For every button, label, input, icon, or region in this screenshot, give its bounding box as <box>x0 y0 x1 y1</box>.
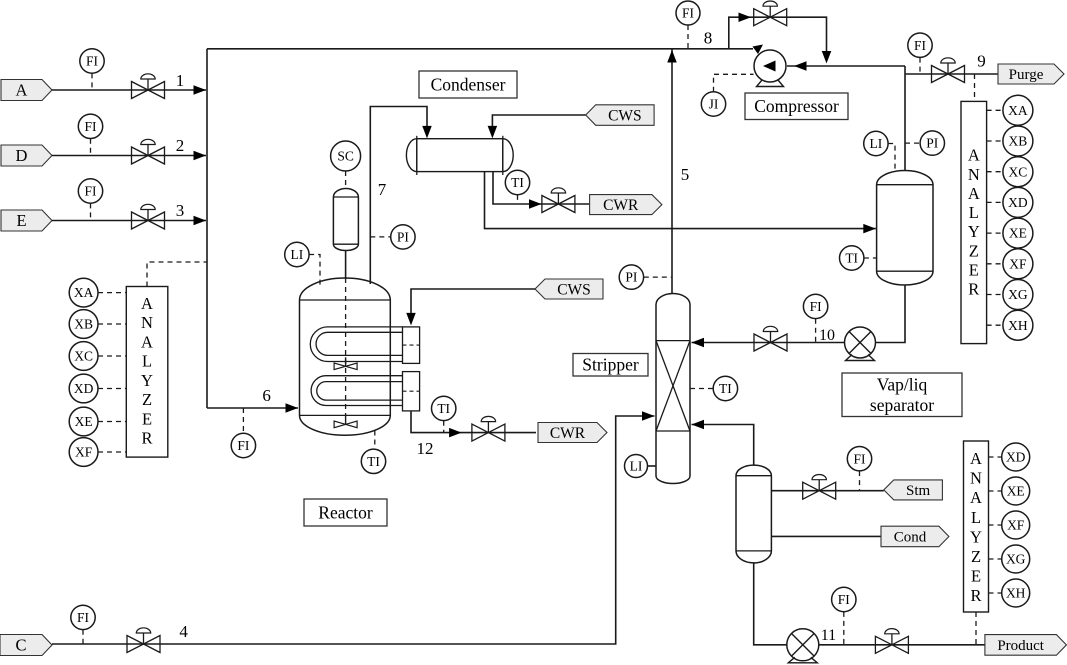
reactor vessel <box>300 278 391 435</box>
svg-text:Compressor: Compressor <box>754 96 839 116</box>
svg-text:Vap/liq: Vap/liq <box>877 374 928 394</box>
svg-text:TI: TI <box>511 175 524 190</box>
svg-text:A: A <box>968 184 980 203</box>
label stream number 12 <box>417 439 434 458</box>
svg-text:FI: FI <box>838 592 851 607</box>
arrow bypass right <box>739 12 752 22</box>
svg-text:A: A <box>968 146 980 165</box>
svg-text:PI: PI <box>926 136 939 151</box>
wire stream 8 recycle header <box>207 48 753 50</box>
svg-text:XE: XE <box>1009 226 1027 241</box>
svg-text:5: 5 <box>681 165 690 184</box>
instrument LI separator <box>864 131 888 155</box>
svg-text:CWR: CWR <box>603 197 639 214</box>
reactor stand pipe <box>345 251 347 280</box>
analyzer bottom box <box>964 441 989 612</box>
svg-text:FI: FI <box>84 119 97 134</box>
arrow stream 5 up <box>667 50 677 63</box>
wire XD dashed link right <box>987 201 1003 203</box>
svg-text:XE: XE <box>1007 484 1025 499</box>
instrument XG bottom analyzer <box>1002 545 1030 573</box>
valve stream 1 <box>132 74 165 99</box>
svg-text:separator: separator <box>870 395 934 415</box>
wire PI reactor dashed <box>370 236 390 238</box>
svg-text:XF: XF <box>75 445 93 460</box>
svg-text:E: E <box>142 409 152 428</box>
arrow bypass down <box>822 51 832 64</box>
wire FI-6 dashed lead <box>242 408 244 433</box>
instrument XF bottom analyzer <box>1002 511 1030 539</box>
wire TI stripper dashed <box>690 388 713 390</box>
wire XD dashed link <box>98 388 126 390</box>
reactor coil lower <box>311 376 402 406</box>
arrow condenser CWR <box>529 199 542 209</box>
tag CWS condenser <box>586 105 654 126</box>
svg-text:XD: XD <box>1006 450 1026 465</box>
svg-text:LI: LI <box>630 459 643 474</box>
instrument JI compressor <box>701 92 725 116</box>
instrument FI stream 2 <box>78 114 102 138</box>
svg-text:R: R <box>141 429 152 448</box>
feed tag D <box>1 145 52 166</box>
tag Product <box>985 635 1067 656</box>
instrument PI separator <box>920 131 944 155</box>
wire XC dashed link right <box>987 171 1003 173</box>
label stream number 8 <box>704 28 713 47</box>
wire compressor bypass <box>729 17 827 53</box>
arrow stream 2 into header <box>194 151 207 161</box>
wire bottom analyzer sample dashed <box>975 612 977 645</box>
wire XA dashed link <box>98 292 126 294</box>
svg-text:XC: XC <box>1009 164 1028 179</box>
arrow CWS into nozzle <box>406 313 416 326</box>
wire FI-10 dashed lead <box>815 319 817 343</box>
wire JI dashed link <box>714 74 754 92</box>
svg-text:N: N <box>141 313 153 332</box>
tag Purge <box>998 64 1064 84</box>
svg-text:LI: LI <box>291 247 304 262</box>
wire XG dashed link bottom <box>989 558 1002 560</box>
valve bypass <box>754 1 787 26</box>
arrow stream 3 into header <box>194 216 207 226</box>
svg-text:XG: XG <box>1006 552 1026 567</box>
wire FI steam dashed lead <box>859 471 861 491</box>
instrument FI stream 4 <box>71 605 95 629</box>
tag Cond <box>881 526 949 547</box>
instrument XA left analyzer <box>69 278 98 307</box>
wire TI condenser dashed lead <box>517 195 519 204</box>
wire feed D line <box>52 155 206 157</box>
wire stream 5 riser <box>671 49 673 294</box>
instrument TI condenser <box>505 170 529 194</box>
arrow compressor discharge <box>753 45 764 55</box>
svg-text:FI: FI <box>914 38 927 53</box>
tag CWS reactor <box>535 279 603 299</box>
svg-text:FI: FI <box>853 451 866 466</box>
wire FI-8 dashed lead <box>687 25 689 49</box>
valve steam <box>803 475 836 500</box>
wire steam line <box>771 490 883 492</box>
svg-text:XA: XA <box>74 285 94 300</box>
svg-text:PI: PI <box>397 229 410 244</box>
analyzer left box <box>126 287 168 458</box>
feed tag A <box>1 80 52 101</box>
svg-text:TI: TI <box>437 401 450 416</box>
tag CWR reactor <box>538 423 607 443</box>
reactor SC pot <box>333 189 358 251</box>
valve condenser CWR <box>542 188 575 213</box>
instrument PI reactor <box>391 225 415 249</box>
wire PI stripper dashed <box>644 276 672 278</box>
wire LI separator dashed <box>888 144 895 173</box>
wire feed C line <box>52 416 655 644</box>
separator vessel <box>877 171 933 286</box>
wire compressor suction <box>787 65 905 67</box>
instrument XE left analyzer <box>69 407 98 436</box>
svg-text:N: N <box>970 469 982 488</box>
wire condenser CWR line <box>493 172 590 204</box>
compressor label box <box>745 93 848 120</box>
arrow stream 6 into reactor <box>286 403 299 413</box>
instrument XD right analyzer <box>1003 187 1033 217</box>
label stream number 4 <box>179 622 188 641</box>
wire feed header vertical <box>206 90 208 408</box>
svg-text:A: A <box>141 294 153 313</box>
wire XF dashed link right <box>987 263 1003 265</box>
instrument FI purge <box>908 33 932 57</box>
wire separator bottoms <box>692 285 906 343</box>
svg-text:A: A <box>141 332 153 351</box>
wire XH dashed link bottom <box>989 592 1002 594</box>
reactor cooling nozzle upper <box>403 327 420 364</box>
reactor cooling nozzle lower <box>403 372 420 411</box>
svg-text:TI: TI <box>367 454 380 469</box>
stripper column <box>656 294 690 484</box>
svg-text:CWR: CWR <box>550 425 586 442</box>
svg-text:3: 3 <box>176 201 185 220</box>
stripper label box <box>573 354 648 377</box>
wire reboiler return <box>692 425 754 466</box>
tag Stm <box>884 480 943 500</box>
instrument XC left analyzer <box>69 342 98 371</box>
stripper packing <box>656 341 690 431</box>
svg-text:R: R <box>968 280 979 299</box>
svg-text:Y: Y <box>970 527 982 546</box>
wire feed E line <box>52 220 206 222</box>
instrument XB left analyzer <box>69 310 98 339</box>
wire XF dashed link bottom <box>989 524 1002 526</box>
instrument XF left analyzer <box>69 438 98 467</box>
svg-text:E: E <box>16 211 26 230</box>
compressor U1 <box>754 50 786 87</box>
instrument XC right analyzer <box>1003 157 1033 187</box>
wire FI-11 dashed lead <box>843 612 845 645</box>
instrument XH right analyzer <box>1003 310 1033 340</box>
svg-text:Z: Z <box>971 547 981 566</box>
svg-text:JI: JI <box>709 97 719 112</box>
wire purge analyzer dashed <box>974 74 976 101</box>
instrument FI stream 11 <box>832 587 856 611</box>
svg-text:XB: XB <box>1009 134 1028 149</box>
svg-text:XH: XH <box>1006 586 1026 601</box>
wire reactor CWR line <box>411 411 536 433</box>
valve stream 12 <box>472 416 505 441</box>
arrow stream 1 into header <box>194 85 207 95</box>
svg-text:TI: TI <box>845 251 858 266</box>
label stream number 11 <box>821 627 836 644</box>
condenser label box <box>419 71 517 98</box>
label stream number 7 <box>378 180 387 199</box>
label stream number 2 <box>176 136 185 155</box>
valve stream 2 <box>132 139 165 164</box>
svg-text:XE: XE <box>75 414 93 429</box>
wire reactor CWS line <box>411 289 535 316</box>
reactor agitator lower <box>334 415 357 427</box>
instrument XF right analyzer <box>1003 249 1033 279</box>
svg-text:CWS: CWS <box>557 281 591 298</box>
label stream number 5 <box>681 165 690 184</box>
svg-text:7: 7 <box>378 180 387 199</box>
svg-text:6: 6 <box>262 386 271 405</box>
svg-text:FI: FI <box>86 54 99 69</box>
arrow CWS into condenser <box>488 126 498 138</box>
instrument XG right analyzer <box>1003 280 1033 310</box>
pump product <box>787 629 819 663</box>
svg-text:XD: XD <box>74 381 94 396</box>
node header top corner <box>206 49 208 90</box>
svg-text:Reactor: Reactor <box>318 502 373 522</box>
wire XC dashed link <box>98 355 126 357</box>
pump separator bottoms <box>845 327 876 361</box>
wire FI-2 dashed lead <box>90 139 92 156</box>
svg-text:Product: Product <box>997 638 1044 654</box>
svg-text:FI: FI <box>84 184 97 199</box>
instrument XB right analyzer <box>1003 126 1033 156</box>
reboiler vessel <box>736 465 771 563</box>
instrument XD bottom analyzer <box>1002 443 1030 471</box>
svg-text:L: L <box>142 352 152 371</box>
svg-text:FI: FI <box>682 6 695 21</box>
svg-text:SC: SC <box>337 149 354 164</box>
separator label box <box>842 373 962 417</box>
instrument XE bottom analyzer <box>1002 477 1030 505</box>
wire SC dashed lead <box>345 171 347 189</box>
wire XB dashed link <box>98 323 126 325</box>
instrument FI stream 1 <box>80 49 104 73</box>
arrow reboiler vapor into stripper <box>692 420 705 430</box>
wire condenser CWS line <box>492 115 585 129</box>
analyzer right box <box>961 101 987 343</box>
wire condensate line <box>485 172 876 229</box>
svg-text:XG: XG <box>1008 287 1028 302</box>
instrument XD left analyzer <box>69 374 98 403</box>
instrument TI stream 12 <box>432 396 456 420</box>
svg-text:PI: PI <box>625 270 638 285</box>
svg-text:A: A <box>970 488 982 507</box>
wire separator overhead riser <box>904 66 906 171</box>
wire FI-1 dashed lead <box>91 73 93 90</box>
instrument XH bottom analyzer <box>1002 579 1030 607</box>
arrow stream 7 into condenser <box>422 126 432 138</box>
reactor agitator upper <box>334 357 357 369</box>
svg-text:XF: XF <box>1007 518 1025 533</box>
svg-text:Z: Z <box>142 390 152 409</box>
wire reboiler bottoms <box>754 563 985 645</box>
feed tag C <box>0 635 52 656</box>
svg-text:4: 4 <box>179 622 188 641</box>
svg-text:Z: Z <box>969 241 979 260</box>
instrument TI stripper <box>713 376 737 400</box>
label stream number 9 <box>977 52 986 71</box>
svg-text:XD: XD <box>1008 195 1028 210</box>
wire XB dashed link right <box>987 140 1003 142</box>
label stream number 1 <box>176 71 185 90</box>
arrow reactor CWR <box>449 428 462 438</box>
svg-text:R: R <box>970 586 981 605</box>
wire LI stripper link <box>648 465 657 467</box>
svg-text:XH: XH <box>1008 318 1028 333</box>
svg-text:FI: FI <box>810 299 823 314</box>
valve purge <box>932 58 965 83</box>
svg-text:1: 1 <box>176 71 185 90</box>
svg-text:L: L <box>969 203 979 222</box>
wire condensate out line <box>771 535 881 537</box>
instrument LI stripper <box>625 455 648 478</box>
wire TI separator dashed <box>864 257 877 259</box>
wire LI reactor dashed <box>309 255 320 288</box>
svg-text:C: C <box>15 636 26 655</box>
wire XE dashed link <box>98 421 126 423</box>
wire feed A line <box>52 89 206 91</box>
instrument FI stream 8 <box>676 1 700 25</box>
wire XA dashed link right <box>987 109 1003 111</box>
svg-text:CWS: CWS <box>608 107 642 124</box>
label stream number 10 <box>819 327 835 344</box>
instrument FI stream 3 <box>78 179 102 203</box>
valve stream 10 <box>754 326 787 351</box>
wire XE dashed link bottom <box>989 490 1002 492</box>
wire TI reactor dashed <box>374 431 376 450</box>
wire XH dashed link right <box>987 324 1003 326</box>
wire stream 7 line <box>370 107 427 285</box>
tag CWR condenser <box>590 195 662 215</box>
svg-text:11: 11 <box>821 627 836 644</box>
wire FI purge dashed lead <box>919 58 921 74</box>
svg-text:FI: FI <box>77 610 90 625</box>
label stream number 6 <box>262 386 271 405</box>
arrow stream 10 into stripper <box>692 338 705 348</box>
svg-text:Y: Y <box>141 371 153 390</box>
svg-text:10: 10 <box>819 327 835 344</box>
svg-text:Condenser: Condenser <box>431 74 506 94</box>
svg-text:XB: XB <box>74 317 93 332</box>
wire XF dashed link <box>98 451 126 453</box>
condenser shell <box>406 136 513 175</box>
instrument TI reactor bottom <box>361 449 385 473</box>
svg-text:LI: LI <box>870 136 883 151</box>
label stream number 3 <box>176 201 185 220</box>
wire XD dashed link bottom <box>989 456 1002 458</box>
instrument LI reactor <box>285 242 309 266</box>
wire TI-12 dashed lead <box>443 421 445 433</box>
instrument FI stream 10 <box>803 294 827 318</box>
valve stream 3 <box>132 204 165 229</box>
arrow into separator <box>863 224 876 234</box>
arrow stream 4 into stripper <box>642 411 655 421</box>
svg-text:Stm: Stm <box>906 483 931 499</box>
wire XE dashed link right <box>987 232 1003 234</box>
svg-text:A: A <box>16 81 28 100</box>
svg-text:8: 8 <box>704 28 713 47</box>
instrument FI stream 6 <box>231 433 255 457</box>
svg-text:D: D <box>16 146 28 165</box>
wire PI separator dashed <box>905 142 920 144</box>
instrument XE right analyzer <box>1003 218 1033 248</box>
svg-text:FI: FI <box>237 438 250 453</box>
svg-text:XF: XF <box>1009 256 1027 271</box>
wire FI-3 dashed lead <box>90 203 92 220</box>
svg-text:Purge: Purge <box>1009 67 1044 83</box>
reactor label box <box>304 499 387 526</box>
reactor coil upper <box>310 327 402 362</box>
instrument SC <box>331 141 361 171</box>
svg-text:2: 2 <box>176 136 185 155</box>
svg-text:XC: XC <box>74 349 93 364</box>
instrument PI stripper <box>619 265 643 289</box>
svg-text:XA: XA <box>1008 103 1028 118</box>
valve stream 4 <box>127 628 160 653</box>
svg-text:E: E <box>969 260 979 279</box>
svg-text:Stripper: Stripper <box>582 355 639 375</box>
svg-text:Cond: Cond <box>894 530 927 546</box>
instrument XA right analyzer <box>1003 95 1033 125</box>
wire FI-4 dashed lead <box>82 630 84 644</box>
wire left analyzer sample dashed <box>147 262 207 287</box>
instrument TI separator <box>840 246 864 270</box>
instrument FI steam <box>847 447 871 471</box>
reactor centerline dashed <box>345 278 347 415</box>
valve product <box>875 629 908 654</box>
arrow into compressor <box>794 61 807 71</box>
wire XG dashed link right <box>987 294 1003 296</box>
svg-text:A: A <box>970 449 982 468</box>
feed tag E <box>1 210 52 231</box>
svg-text:TI: TI <box>719 381 732 396</box>
wire stream 6 line <box>207 407 298 409</box>
svg-text:E: E <box>971 567 981 586</box>
svg-text:L: L <box>971 508 981 527</box>
wire purge line <box>905 73 998 75</box>
svg-text:N: N <box>968 165 980 184</box>
svg-text:Y: Y <box>968 222 980 241</box>
svg-text:12: 12 <box>417 439 434 458</box>
svg-text:9: 9 <box>977 52 986 71</box>
